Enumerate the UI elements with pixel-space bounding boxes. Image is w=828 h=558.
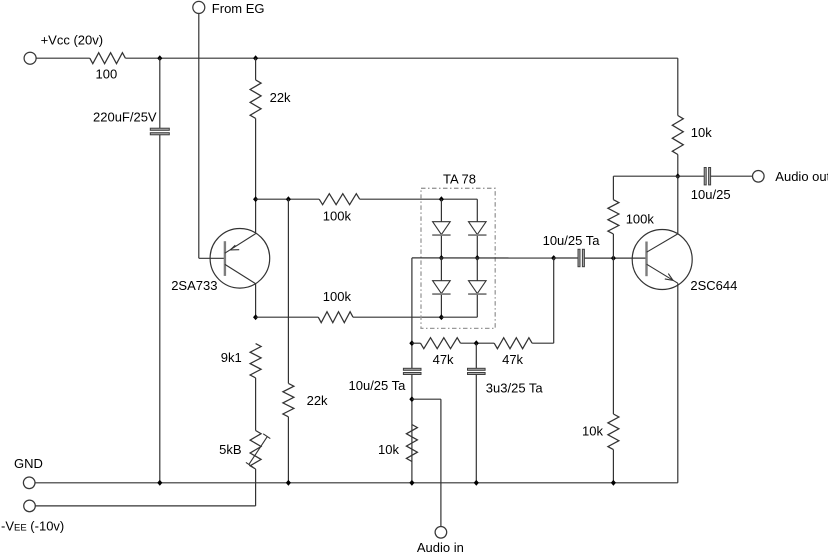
wire [159,135,161,483]
wire [475,375,477,483]
svg-text:10u/25 Ta: 10u/25 Ta [543,233,601,248]
wire GND rail [35,482,678,484]
svg-text:TA 78: TA 78 [443,171,476,186]
wire [532,342,554,344]
diode D2 [433,281,451,294]
wire [255,378,257,431]
resistor 100k lower [318,312,353,323]
svg-text:10k: 10k [378,442,399,457]
wire [612,176,614,200]
wire [476,236,478,258]
wire [613,175,677,177]
node junction [286,480,291,486]
capacitor 10u/25 Ta coupling [578,249,580,266]
wire [711,175,753,177]
node junction collector Q2 [675,173,680,179]
wire [461,342,495,344]
svg-text:220uF/25V: 220uF/25V [93,109,157,124]
wire base lead Q1 [199,257,225,259]
svg-text:10u/25 Ta: 10u/25 Ta [349,378,407,393]
node junction audio-in tap [409,396,414,402]
terminal +Vcc [24,52,36,64]
resistor 10k bottom-left [406,425,417,462]
node junction base Q2 [611,255,616,261]
wire top rail drop right [677,58,679,115]
wire [287,199,289,383]
terminal Audio out [753,171,765,183]
terminal From EG [193,1,205,13]
svg-text:10k: 10k [582,424,603,439]
wire [440,258,442,281]
node junction 47k mid [474,340,479,346]
terminal -Vee [24,500,36,512]
wire [440,236,442,258]
capacitor 3u3/25 Ta [468,368,486,370]
resistor 100 [90,53,126,64]
wire emitter Q2 [677,283,679,483]
svg-text:-VEE (-10v): -VEE (-10v) [1,519,64,534]
svg-text:100k: 100k [323,208,352,223]
svg-text:47k: 47k [502,352,523,367]
node junction [439,255,444,261]
svg-text:9k1: 9k1 [221,350,242,365]
wire [476,295,478,317]
wire [256,316,319,318]
node junction [475,255,480,261]
terminal Audio in [435,527,447,539]
svg-text:10k: 10k [691,125,712,140]
wire [475,343,477,368]
resistor 10k top-right [672,116,683,155]
wire base lead Q2 [585,257,647,259]
svg-text:2SA733: 2SA733 [171,278,217,293]
resistor 10k bottom-right [608,414,619,450]
node junction top-mid [253,55,258,61]
resistor 100k right [608,200,619,234]
resistor 22k upper [250,80,261,119]
svg-text:+Vcc (20v): +Vcc (20v) [41,32,104,47]
wire [411,375,413,483]
transistor 2SA733 [210,228,270,288]
wire [476,199,478,222]
transistor 2SC644 [632,230,692,290]
wire [476,258,478,281]
wire From EG vertical [198,13,200,258]
resistor 22k lower [283,383,294,416]
node junction [409,480,414,486]
resistor 47k right [494,338,532,349]
svg-text:Audio out: Audio out [775,169,828,184]
resistor 9k1 [250,344,261,378]
wire box bottom [441,316,477,318]
wire [255,58,257,80]
node junction 47k left [409,340,414,346]
svg-text:100k: 100k [626,211,655,226]
wire -Vee rail [35,505,255,507]
svg-text:Audio in: Audio in [417,540,464,553]
capacitor 10u/25 Ta bypass [403,368,421,370]
resistor 100k upper [319,194,360,205]
node junction base row left [253,196,258,202]
wire box top [441,198,477,200]
wire emitter Q1 [255,199,257,234]
wire [255,118,257,199]
wire [287,417,289,483]
svg-text:100: 100 [96,67,118,82]
terminal GND [23,477,35,489]
svg-text:22k: 22k [270,90,291,105]
wire [353,316,441,318]
wire [678,175,704,177]
wire [255,469,257,506]
wire [411,258,413,368]
node junction [439,196,444,202]
node junction [474,480,479,486]
svg-text:GND: GND [14,456,43,471]
wire [36,57,90,59]
wire [440,199,442,222]
node junction collector row [253,314,258,320]
node junction [439,314,444,320]
svg-text:From EG: From EG [212,1,265,16]
wire [412,398,441,400]
node junction top-left [157,55,162,61]
wire collector Q1 [255,284,257,318]
svg-text:2SC644: 2SC644 [690,278,737,293]
wire [159,58,161,128]
wire [612,234,614,258]
svg-text:10u/25: 10u/25 [691,187,731,202]
svg-text:22k: 22k [307,393,328,408]
svg-text:5kB: 5kB [219,442,241,457]
wire top rail [125,57,677,59]
wire audio in drop [440,399,442,526]
node junction [286,196,291,202]
wire [554,257,578,259]
node junction [157,480,162,486]
diode D4 [469,281,487,294]
wire [553,258,555,343]
wire [360,198,442,200]
wire [612,450,614,483]
wire middle row [412,257,554,259]
wire collector Q2 [677,176,679,234]
wire [412,342,421,344]
capacitor 220uF/25V [150,128,169,130]
variable resistor 5kB [250,431,261,470]
wire [256,198,320,200]
diode D3 [469,222,487,235]
node junction middle out [551,255,556,261]
wire [440,295,442,317]
svg-text:47k: 47k [433,352,454,367]
capacitor 10u/25 output [704,168,706,185]
node junction [611,480,616,486]
svg-text:3u3/25 Ta: 3u3/25 Ta [486,381,544,396]
resistor 47k left [421,338,461,349]
diode D1 [433,222,451,235]
box TA 78 [421,188,495,328]
wire [677,155,679,177]
wire [612,258,614,414]
svg-text:100k: 100k [323,289,352,304]
